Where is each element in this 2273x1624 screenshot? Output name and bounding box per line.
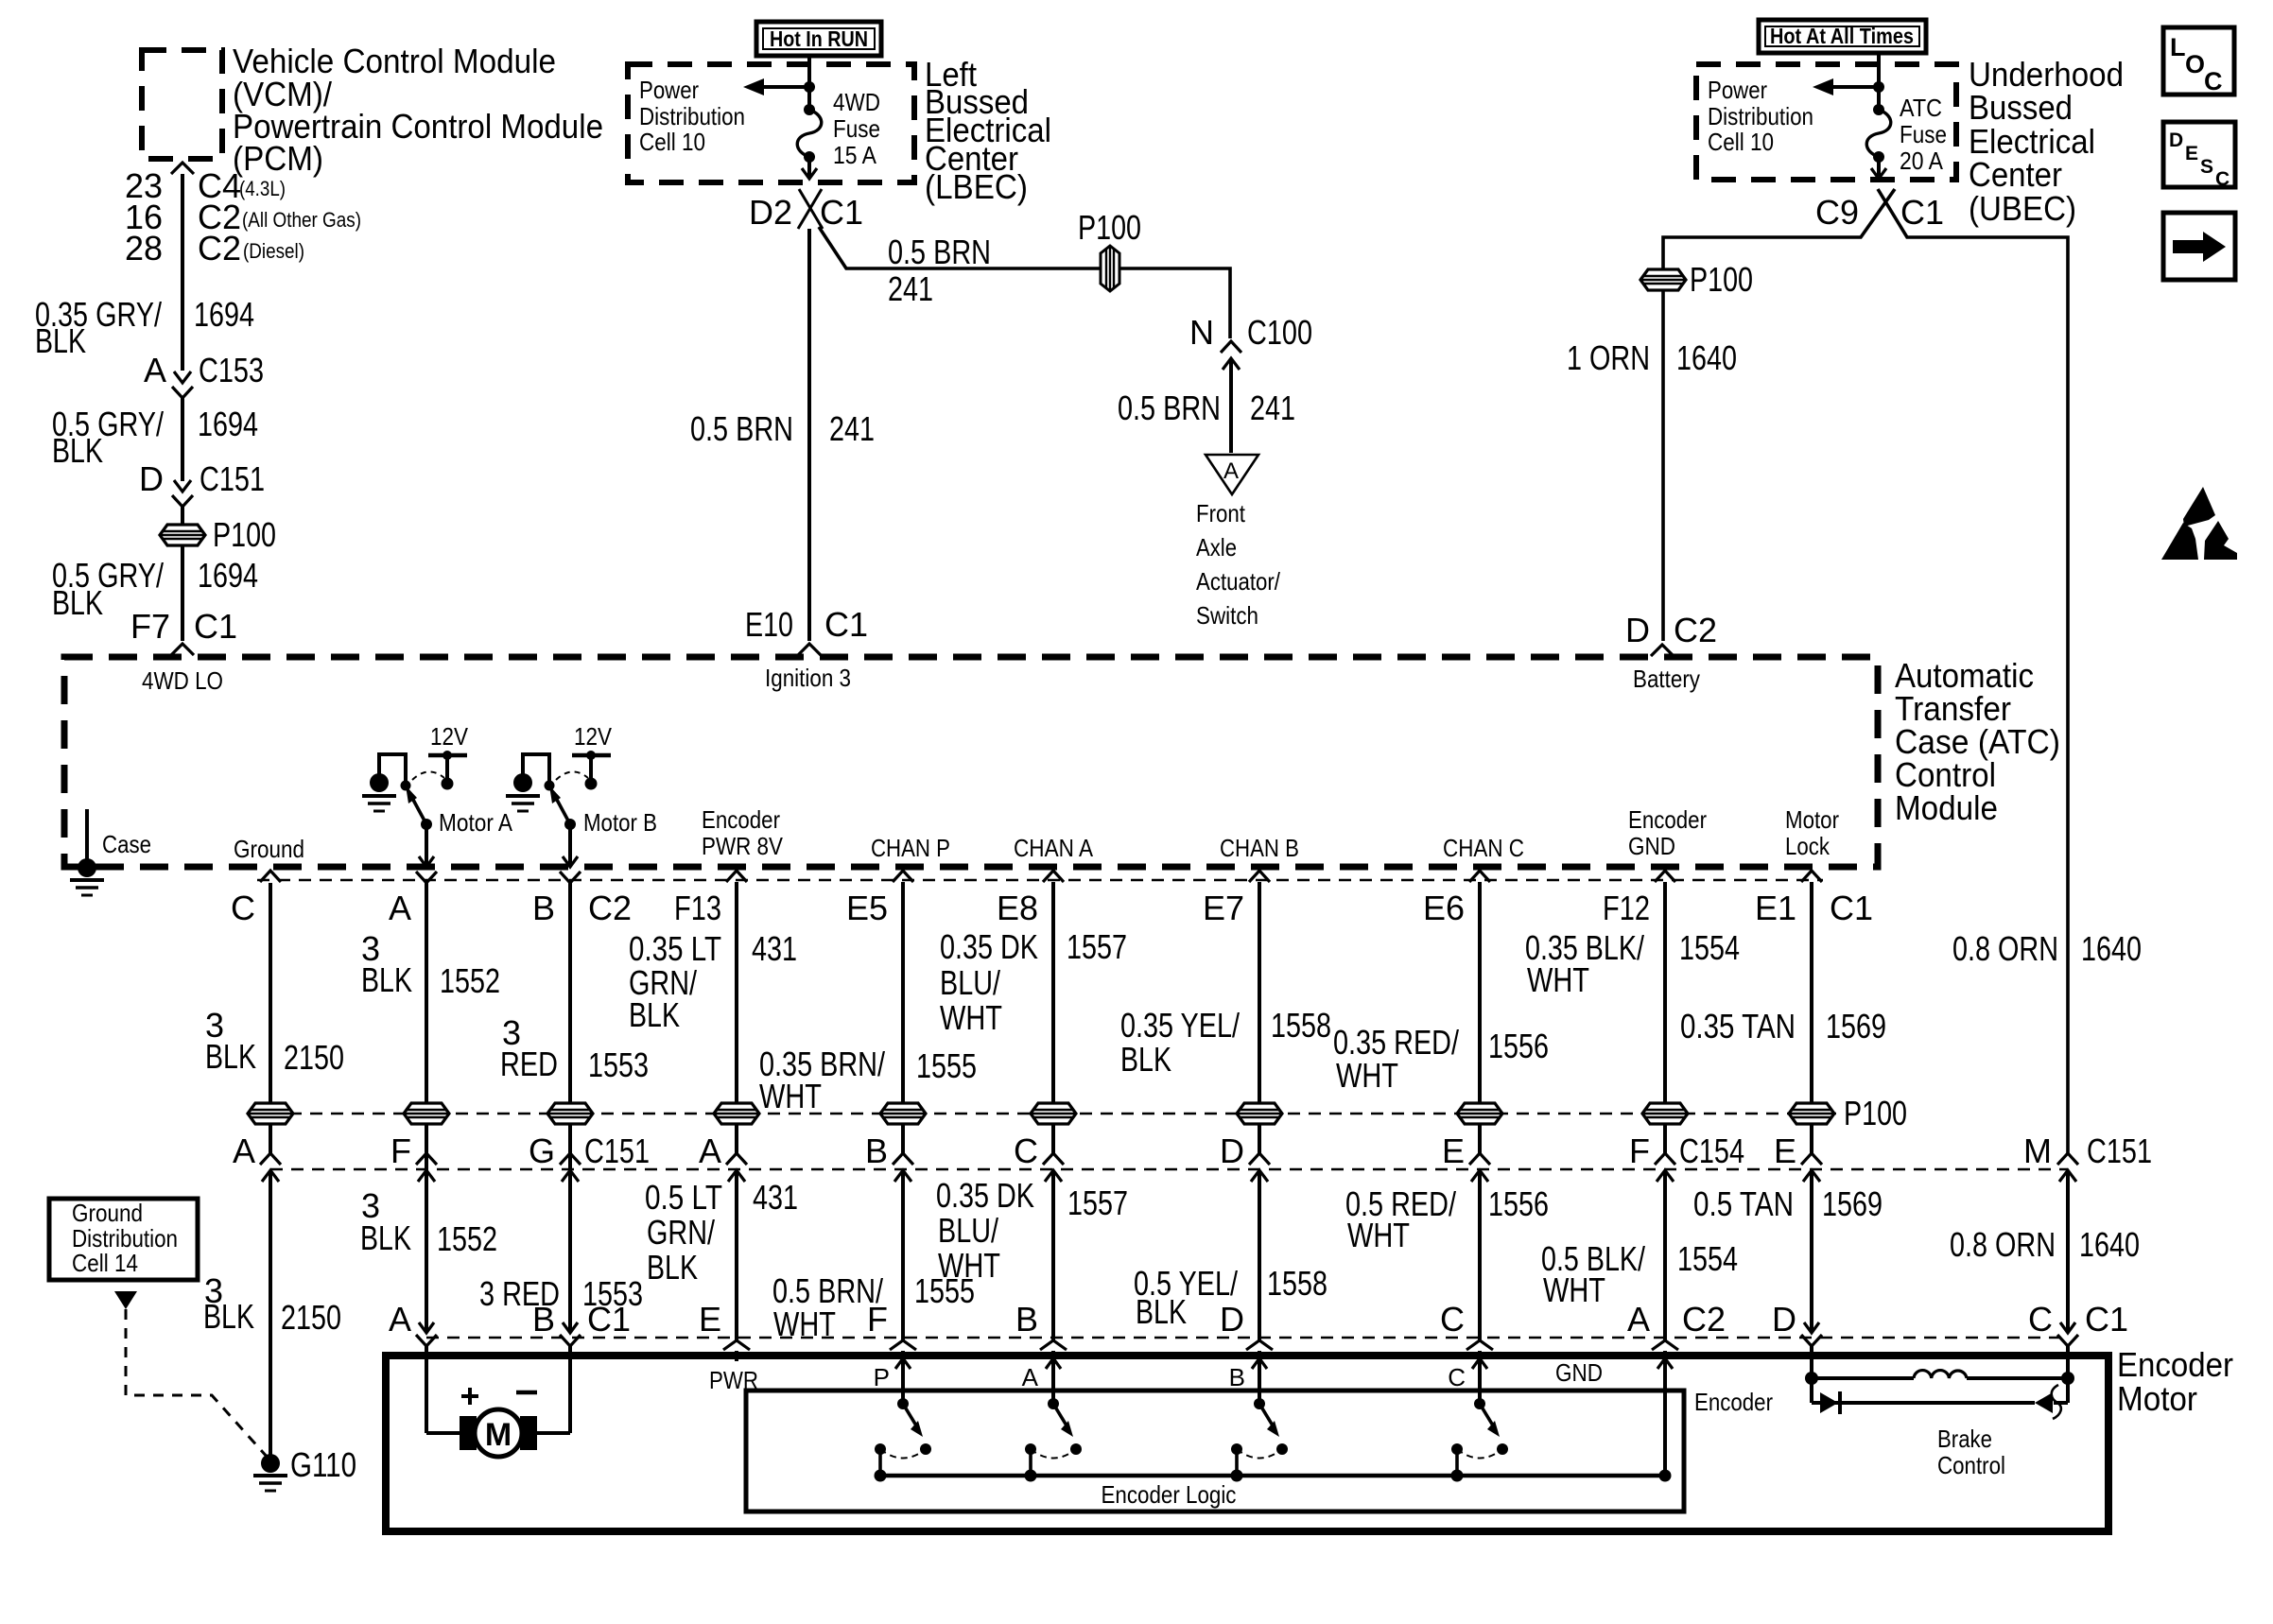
svg-text:D: D <box>1772 1300 1796 1339</box>
svg-text:Encoder Logic: Encoder Logic <box>1102 1480 1237 1509</box>
svg-text:0.5 TAN: 0.5 TAN <box>1693 1184 1794 1223</box>
svg-text:15 A: 15 A <box>833 141 877 169</box>
svg-text:1640: 1640 <box>2081 929 2142 968</box>
svg-text:C2: C2 <box>588 889 632 927</box>
svg-text:C100: C100 <box>1247 313 1312 352</box>
svg-text:4WD: 4WD <box>833 88 880 116</box>
terminal A (encoder motor connector) <box>419 1322 434 1333</box>
encoder switch B <box>1252 1358 1267 1369</box>
svg-text:12V: 12V <box>574 722 613 751</box>
svg-text:C2: C2 <box>198 229 241 268</box>
svg-text:D: D <box>1220 1132 1244 1170</box>
svg-text:C: C <box>1448 1363 1466 1391</box>
svg-text:Encoder: Encoder <box>1694 1388 1773 1416</box>
inline connector P100 at x=1565 <box>1457 1103 1502 1124</box>
svg-text:1569: 1569 <box>1826 1007 1886 1045</box>
svg-text:F: F <box>867 1300 888 1339</box>
svg-text:Ignition 3: Ignition 3 <box>765 664 851 692</box>
svg-text:C: C <box>2215 168 2230 190</box>
svg-text:1554: 1554 <box>1679 928 1740 967</box>
svg-text:WHT: WHT <box>759 1077 822 1115</box>
svg-text:D2: D2 <box>749 193 792 232</box>
svg-text:Module: Module <box>1895 788 1998 827</box>
svg-text:A: A <box>389 1300 411 1339</box>
svg-text:GRN/: GRN/ <box>647 1213 715 1252</box>
svg-text:Cell 14: Cell 14 <box>72 1249 138 1277</box>
terminal B of ATC connector <box>560 872 581 883</box>
svg-text:BLK: BLK <box>205 1037 256 1076</box>
svg-text:C153: C153 <box>199 351 264 389</box>
svg-text:Encoder: Encoder <box>2117 1345 2233 1384</box>
terminal C (encoder motor connector) <box>2060 1322 2075 1333</box>
svg-text:2150: 2150 <box>284 1038 344 1077</box>
connector pin A (C151/C154 row) <box>260 1153 281 1165</box>
wire encoder channel run x=1332 <box>1258 882 1261 1153</box>
module box: Automatic Transfer Case (ATC) Control Module (dashed) <box>64 657 1878 867</box>
dashed connector line C151/C154 <box>270 1168 2068 1171</box>
svg-text:0.8 ORN: 0.8 ORN <box>1952 929 2058 968</box>
node: junction dot LBEC feed <box>804 81 815 93</box>
svg-text:PWR 8V: PWR 8V <box>702 832 784 860</box>
terminal F (encoder motor connector) <box>890 1340 916 1350</box>
svg-text:Axle: Axle <box>1196 533 1237 561</box>
svg-text:1694: 1694 <box>194 295 254 334</box>
svg-text:Battery: Battery <box>1633 665 1700 693</box>
svg-text:BLK: BLK <box>1136 1292 1187 1331</box>
connector pin B (C151/C154 row) <box>893 1153 913 1165</box>
svg-text:C1: C1 <box>194 607 237 646</box>
svg-text:ATC: ATC <box>1900 94 1942 122</box>
inline connector P100 at x=286 <box>248 1103 293 1124</box>
dashed connector line C2/C1 (below ATC box) <box>257 879 1823 882</box>
off-page triangle A: Front Axle Actuator/Switch <box>1206 455 1258 494</box>
svg-text:S: S <box>2200 156 2213 178</box>
svg-text:G110: G110 <box>290 1445 356 1484</box>
svg-text:WHT: WHT <box>1336 1056 1398 1095</box>
svg-text:C1: C1 <box>587 1300 631 1339</box>
svg-text:A: A <box>1223 458 1239 484</box>
svg-text:E: E <box>2185 143 2198 164</box>
svg-text:BLK: BLK <box>52 431 103 470</box>
fuse: ATC Fuse 20 A <box>1873 104 1884 115</box>
svg-text:A: A <box>389 889 411 927</box>
svg-text:C1: C1 <box>1900 193 1944 232</box>
svg-text:0.5 BRN: 0.5 BRN <box>888 233 991 271</box>
dashed connector line C1/C2 (encoder motor) <box>426 1337 2068 1339</box>
wire encoder channel run x=1565 <box>1478 882 1482 1153</box>
svg-text:Motor A: Motor A <box>439 808 513 837</box>
wire Motor B output <box>568 824 572 865</box>
terminal E8 of ATC connector <box>1043 871 1064 882</box>
inline connector P100 (UBEC branch) <box>1640 269 1686 290</box>
terminal E6 of ATC connector <box>1469 871 1490 882</box>
svg-text:4WD LO: 4WD LO <box>142 666 223 695</box>
svg-text:Power: Power <box>639 76 699 104</box>
svg-text:Distribution: Distribution <box>639 102 745 130</box>
module box: Underhood Bussed Electrical Center (dashed) <box>1696 64 1956 180</box>
svg-text:1694: 1694 <box>198 405 258 443</box>
brake control coil <box>1805 1372 1818 1385</box>
connector pin M C151 (right) <box>2057 1153 2078 1165</box>
svg-text:Distribution: Distribution <box>1708 102 1813 130</box>
module box: Encoder Motor <box>386 1356 2108 1531</box>
wire: arrow to other loads (left) <box>762 85 809 89</box>
terminal F12 of ATC connector <box>1655 871 1675 882</box>
wire encoder channel run x=1761 <box>1663 882 1667 1153</box>
svg-text:1552: 1552 <box>440 961 500 1000</box>
wire C ground 2150 run <box>269 883 272 1153</box>
svg-text:0.35 YEL/: 0.35 YEL/ <box>1120 1006 1240 1045</box>
svg-text:C1: C1 <box>820 193 863 232</box>
terminal C of ATC connector <box>260 871 281 882</box>
connector pin C (C151/C154 row) <box>1043 1153 1064 1165</box>
wire 0.8 ORN lower run <box>2066 1170 2070 1333</box>
wire: branch to front axle actuator <box>819 227 1230 338</box>
svg-text:B: B <box>532 1300 555 1339</box>
svg-text:G: G <box>529 1132 555 1170</box>
svg-text:WHT: WHT <box>1543 1270 1605 1309</box>
svg-text:Ground: Ground <box>234 835 304 863</box>
svg-text:BLK: BLK <box>52 583 103 622</box>
svg-text:Cell 10: Cell 10 <box>639 128 705 156</box>
svg-text:1557: 1557 <box>1067 927 1127 966</box>
svg-text:C2: C2 <box>1682 1300 1726 1339</box>
connector pin E (C151/C154 row) <box>1801 1153 1822 1165</box>
svg-text:1558: 1558 <box>1271 1006 1331 1045</box>
terminal F13 of ATC connector <box>726 871 747 882</box>
wire encoder channel run x=955 <box>901 882 905 1153</box>
svg-text:C: C <box>2204 67 2223 95</box>
svg-text:Actuator/: Actuator/ <box>1196 567 1281 596</box>
inline connector P100 (branch) <box>1101 246 1119 291</box>
svg-text:BLK: BLK <box>361 960 412 999</box>
svg-text:E: E <box>699 1300 721 1339</box>
wire: battery feed left branch to P100 <box>1663 189 1895 641</box>
svg-text:C151: C151 <box>200 459 265 498</box>
svg-text:20 A: 20 A <box>1900 147 1944 175</box>
inline connector P100 (left) <box>160 525 205 545</box>
svg-text:BLK: BLK <box>203 1297 254 1336</box>
connector pin E (C151/C154 row) <box>1469 1153 1490 1165</box>
svg-text:M: M <box>2023 1132 2052 1170</box>
terminal E7 of ATC connector <box>1249 871 1270 882</box>
svg-text:C151: C151 <box>584 1132 650 1170</box>
inline connector P100 at x=1114 <box>1031 1103 1076 1124</box>
svg-text:1552: 1552 <box>437 1219 497 1258</box>
svg-text:C: C <box>231 889 255 927</box>
svg-text:(All Other Gas): (All Other Gas) <box>242 208 361 232</box>
wire: VCM output lead <box>171 163 194 174</box>
wire A motor 1552 run <box>425 883 428 1333</box>
svg-text:BLK: BLK <box>35 321 86 360</box>
svg-text:E5: E5 <box>846 889 888 927</box>
svg-text:GND: GND <box>1555 1358 1603 1387</box>
svg-text:Switch: Switch <box>1196 601 1258 630</box>
svg-text:CHAN P: CHAN P <box>871 834 950 862</box>
wire: dashed ground reference to G110 <box>114 1291 137 1309</box>
svg-text:CHAN B: CHAN B <box>1220 834 1299 862</box>
wire B motor 1553 run <box>568 883 572 1333</box>
switch arm Motor B <box>557 800 570 824</box>
svg-text:GND: GND <box>1628 832 1675 860</box>
svg-text:Hot At All Times: Hot At All Times <box>1770 24 1914 48</box>
svg-text:1640: 1640 <box>2079 1225 2140 1264</box>
svg-text:1557: 1557 <box>1067 1183 1128 1222</box>
svg-text:Brake: Brake <box>1937 1425 1992 1453</box>
wire Motor A output <box>425 824 428 865</box>
svg-text:D: D <box>1220 1300 1244 1339</box>
svg-text:Fuse: Fuse <box>1900 120 1947 148</box>
svg-text:1569: 1569 <box>1822 1184 1883 1223</box>
svg-text:CHAN A: CHAN A <box>1014 834 1094 862</box>
svg-text:1555: 1555 <box>916 1046 977 1085</box>
svg-text:M: M <box>485 1417 512 1453</box>
svg-text:0.5 BRN: 0.5 BRN <box>1118 389 1221 427</box>
svg-text:F: F <box>1629 1132 1650 1170</box>
svg-text:F12: F12 <box>1603 889 1650 927</box>
svg-text:E7: E7 <box>1203 889 1244 927</box>
svg-text:E8: E8 <box>997 889 1038 927</box>
svg-text:D: D <box>139 459 164 498</box>
svg-text:E6: E6 <box>1423 889 1465 927</box>
terminal D (encoder motor connector) <box>1246 1340 1273 1350</box>
svg-text:C151: C151 <box>2087 1132 2152 1170</box>
svg-text:WHT: WHT <box>1527 960 1589 999</box>
icon: ESD sensitive device symbol <box>2183 487 2215 527</box>
svg-text:0.35 DK: 0.35 DK <box>940 927 1038 966</box>
connector pin A (C151/C154 row) <box>726 1153 747 1165</box>
switch arm Motor A <box>413 800 426 824</box>
svg-text:D: D <box>1625 611 1650 649</box>
svg-text:1554: 1554 <box>1677 1239 1738 1278</box>
ground: Case pin <box>85 809 89 866</box>
svg-text:(Diesel): (Diesel) <box>243 239 304 263</box>
svg-text:E1: E1 <box>1755 889 1796 927</box>
encoder switch P <box>895 1358 911 1369</box>
terminal E1 of ATC connector <box>1801 871 1822 882</box>
svg-text:RED: RED <box>500 1045 558 1083</box>
wire: Ignition 3 feed down to ATC <box>807 229 811 641</box>
wire E1 TAN 1569 run <box>1810 882 1813 1153</box>
svg-text:Motor B: Motor B <box>583 808 657 837</box>
icon: forward arrow box <box>2163 213 2235 280</box>
wire F13 431 run <box>735 882 738 1153</box>
svg-text:O: O <box>2185 50 2205 78</box>
terminal A of ATC connector <box>416 872 437 883</box>
ground G110 <box>261 1454 280 1473</box>
svg-text:CHAN C: CHAN C <box>1443 834 1524 862</box>
power tag: Hot In RUN box <box>756 22 881 56</box>
inline connector P100 at x=1332 <box>1237 1103 1282 1124</box>
svg-text:(UBEC): (UBEC) <box>1969 189 2076 228</box>
svg-text:B: B <box>532 889 555 927</box>
svg-text:D: D <box>2169 130 2183 151</box>
icon: LOC reference box <box>2163 27 2234 95</box>
inline connector P100 at x=1916 <box>1789 1103 1834 1124</box>
svg-text:P100: P100 <box>213 515 276 554</box>
svg-text:1558: 1558 <box>1267 1264 1327 1303</box>
svg-text:241: 241 <box>888 269 933 308</box>
svg-text:F7: F7 <box>130 607 170 646</box>
svg-text:241: 241 <box>829 409 875 448</box>
svg-text:C: C <box>1440 1300 1465 1339</box>
node: junction dot UBEC feed <box>1873 81 1884 93</box>
terminal B (encoder motor connector) <box>563 1322 578 1333</box>
connector pin D (C151/C154 row) <box>1249 1153 1270 1165</box>
svg-text:F: F <box>390 1132 411 1170</box>
svg-text:Cell 10: Cell 10 <box>1708 128 1774 156</box>
svg-text:Encoder: Encoder <box>702 805 780 834</box>
svg-text:1 ORN: 1 ORN <box>1567 338 1650 377</box>
svg-text:Control: Control <box>1937 1451 2005 1479</box>
svg-text:(4.3L): (4.3L) <box>239 177 286 200</box>
terminal B (encoder motor connector) <box>1040 1340 1067 1350</box>
svg-text:C: C <box>1014 1132 1038 1170</box>
svg-text:431: 431 <box>752 929 797 968</box>
svg-text:A: A <box>233 1132 255 1170</box>
svg-text:P: P <box>874 1363 890 1391</box>
svg-text:Fuse: Fuse <box>833 114 880 143</box>
svg-text:12V: 12V <box>430 722 469 751</box>
svg-text:Lock: Lock <box>1785 832 1831 860</box>
terminal A (encoder motor connector) <box>1652 1340 1678 1350</box>
svg-text:WHT: WHT <box>940 998 1002 1037</box>
relay driver Motor A (12V coil contact) <box>379 754 406 785</box>
svg-text:1556: 1556 <box>1488 1027 1549 1065</box>
svg-text:A: A <box>1627 1300 1650 1339</box>
terminal E (encoder motor connector) <box>723 1340 750 1350</box>
svg-text:0.5 BRN: 0.5 BRN <box>690 409 793 448</box>
encoder switch C <box>1472 1358 1487 1369</box>
svg-text:Front: Front <box>1196 499 1246 527</box>
module box: Vehicle Control Module / Powertrain Control Module (dashed) <box>142 50 222 159</box>
svg-text:B: B <box>1015 1300 1038 1339</box>
svg-text:(PCM): (PCM) <box>233 139 323 178</box>
svg-text:241: 241 <box>1250 389 1295 427</box>
wire: arrow to other loads (left, UBEC) <box>1831 85 1879 89</box>
svg-text:Bussed: Bussed <box>1969 88 2073 127</box>
wire encoder channel run x=1114 <box>1051 882 1055 1153</box>
svg-text:28: 28 <box>125 229 163 268</box>
svg-text:A: A <box>1022 1363 1039 1391</box>
inline connector P100 at x=603 <box>547 1103 593 1124</box>
svg-text:A: A <box>144 351 166 389</box>
inline connector P100 at x=955 <box>880 1103 926 1124</box>
motor M with +/- terminals <box>426 1431 461 1435</box>
svg-text:WHT: WHT <box>1347 1216 1410 1254</box>
svg-text:2150: 2150 <box>281 1298 341 1337</box>
svg-text:Encoder: Encoder <box>1628 805 1707 834</box>
svg-text:E: E <box>1442 1132 1465 1170</box>
svg-text:N: N <box>1189 313 1214 352</box>
inline connector P100 at x=451 <box>404 1103 449 1124</box>
terminal C (encoder motor connector) <box>1466 1340 1493 1350</box>
svg-text:Motor: Motor <box>1785 805 1839 834</box>
svg-text:C1: C1 <box>1830 889 1873 927</box>
module box: Encoder Logic <box>746 1391 1684 1512</box>
svg-text:B: B <box>865 1132 888 1170</box>
svg-text:(LBEC): (LBEC) <box>925 167 1028 206</box>
svg-text:C9: C9 <box>1815 193 1859 232</box>
svg-text:1694: 1694 <box>198 556 258 595</box>
svg-text:L: L <box>2170 33 2186 61</box>
svg-text:C1: C1 <box>824 605 868 644</box>
svg-text:BLK: BLK <box>629 995 680 1034</box>
inline connector P100 at x=1761 <box>1642 1103 1688 1124</box>
svg-text:C2: C2 <box>1674 611 1717 649</box>
svg-text:0.35 DK: 0.35 DK <box>936 1176 1034 1215</box>
fuse: 4WD Fuse 15 A <box>804 104 815 115</box>
svg-text:Power: Power <box>1708 76 1767 104</box>
svg-text:BLU/: BLU/ <box>938 1211 998 1250</box>
wire from Hot At All Times into UBEC <box>1877 55 1881 110</box>
encoder logic common bus <box>880 1474 1662 1478</box>
wire from Hot In RUN into LBEC <box>807 57 811 110</box>
terminal D (encoder motor connector) <box>1804 1322 1819 1333</box>
svg-text:C1: C1 <box>2085 1300 2128 1339</box>
svg-text:Ground: Ground <box>72 1199 143 1227</box>
svg-text:1640: 1640 <box>1676 338 1737 377</box>
connector pin G (C151/C154 row) <box>560 1153 581 1165</box>
connector pin F (C151/C154 row) <box>1655 1153 1675 1165</box>
brake control diode branch <box>1810 1378 1813 1403</box>
svg-text:P100: P100 <box>1078 208 1141 247</box>
svg-text:BLK: BLK <box>360 1218 411 1257</box>
module box: Left Bussed Electrical Center (dashed) <box>628 64 914 182</box>
svg-text:Hot In RUN: Hot In RUN <box>770 26 868 51</box>
svg-text:C154: C154 <box>1679 1132 1744 1170</box>
reference box: Ground Distribution Cell 14 <box>49 1199 198 1280</box>
terminal E5 of ATC connector <box>893 871 913 882</box>
svg-text:0.35 LT: 0.35 LT <box>629 929 721 968</box>
connector pin F (C151/C154 row) <box>416 1153 437 1165</box>
svg-text:WHT: WHT <box>938 1246 1000 1285</box>
svg-text:Motor: Motor <box>2117 1379 2197 1418</box>
svg-text:E10: E10 <box>745 605 793 644</box>
svg-text:0.8 ORN: 0.8 ORN <box>1950 1225 2056 1264</box>
svg-text:E: E <box>1774 1132 1796 1170</box>
svg-text:A: A <box>699 1132 721 1170</box>
encoder switch A <box>1046 1358 1061 1369</box>
wire: battery feed right branch (0.8 ORN) <box>1878 189 2068 1153</box>
svg-text:C: C <box>2028 1300 2053 1339</box>
svg-text:0.35 TAN: 0.35 TAN <box>1680 1007 1796 1045</box>
inline connector P100 at x=779 <box>714 1103 759 1124</box>
icon: DESC reference box <box>2163 122 2235 187</box>
svg-text:1556: 1556 <box>1488 1184 1549 1223</box>
power tag: Hot At All Times box <box>1759 20 1926 53</box>
encoder GND return arrow <box>1657 1358 1673 1369</box>
dashed line through P100 pass-through <box>248 1113 1836 1115</box>
svg-text:BLK: BLK <box>647 1248 698 1287</box>
svg-text:Center: Center <box>1969 155 2062 194</box>
relay driver Motor B (12V coil contact) <box>523 754 549 785</box>
svg-text:0.5 LT: 0.5 LT <box>645 1178 722 1217</box>
svg-text:BLK: BLK <box>1120 1040 1171 1079</box>
svg-text:Case: Case <box>102 830 151 858</box>
svg-text:F13: F13 <box>674 889 721 927</box>
svg-text:1553: 1553 <box>588 1045 649 1084</box>
svg-text:431: 431 <box>753 1178 798 1217</box>
svg-text:B: B <box>1229 1363 1245 1391</box>
svg-text:P100: P100 <box>1844 1094 1907 1132</box>
svg-text:BLU/: BLU/ <box>940 963 1000 1002</box>
svg-text:P100: P100 <box>1690 260 1753 299</box>
